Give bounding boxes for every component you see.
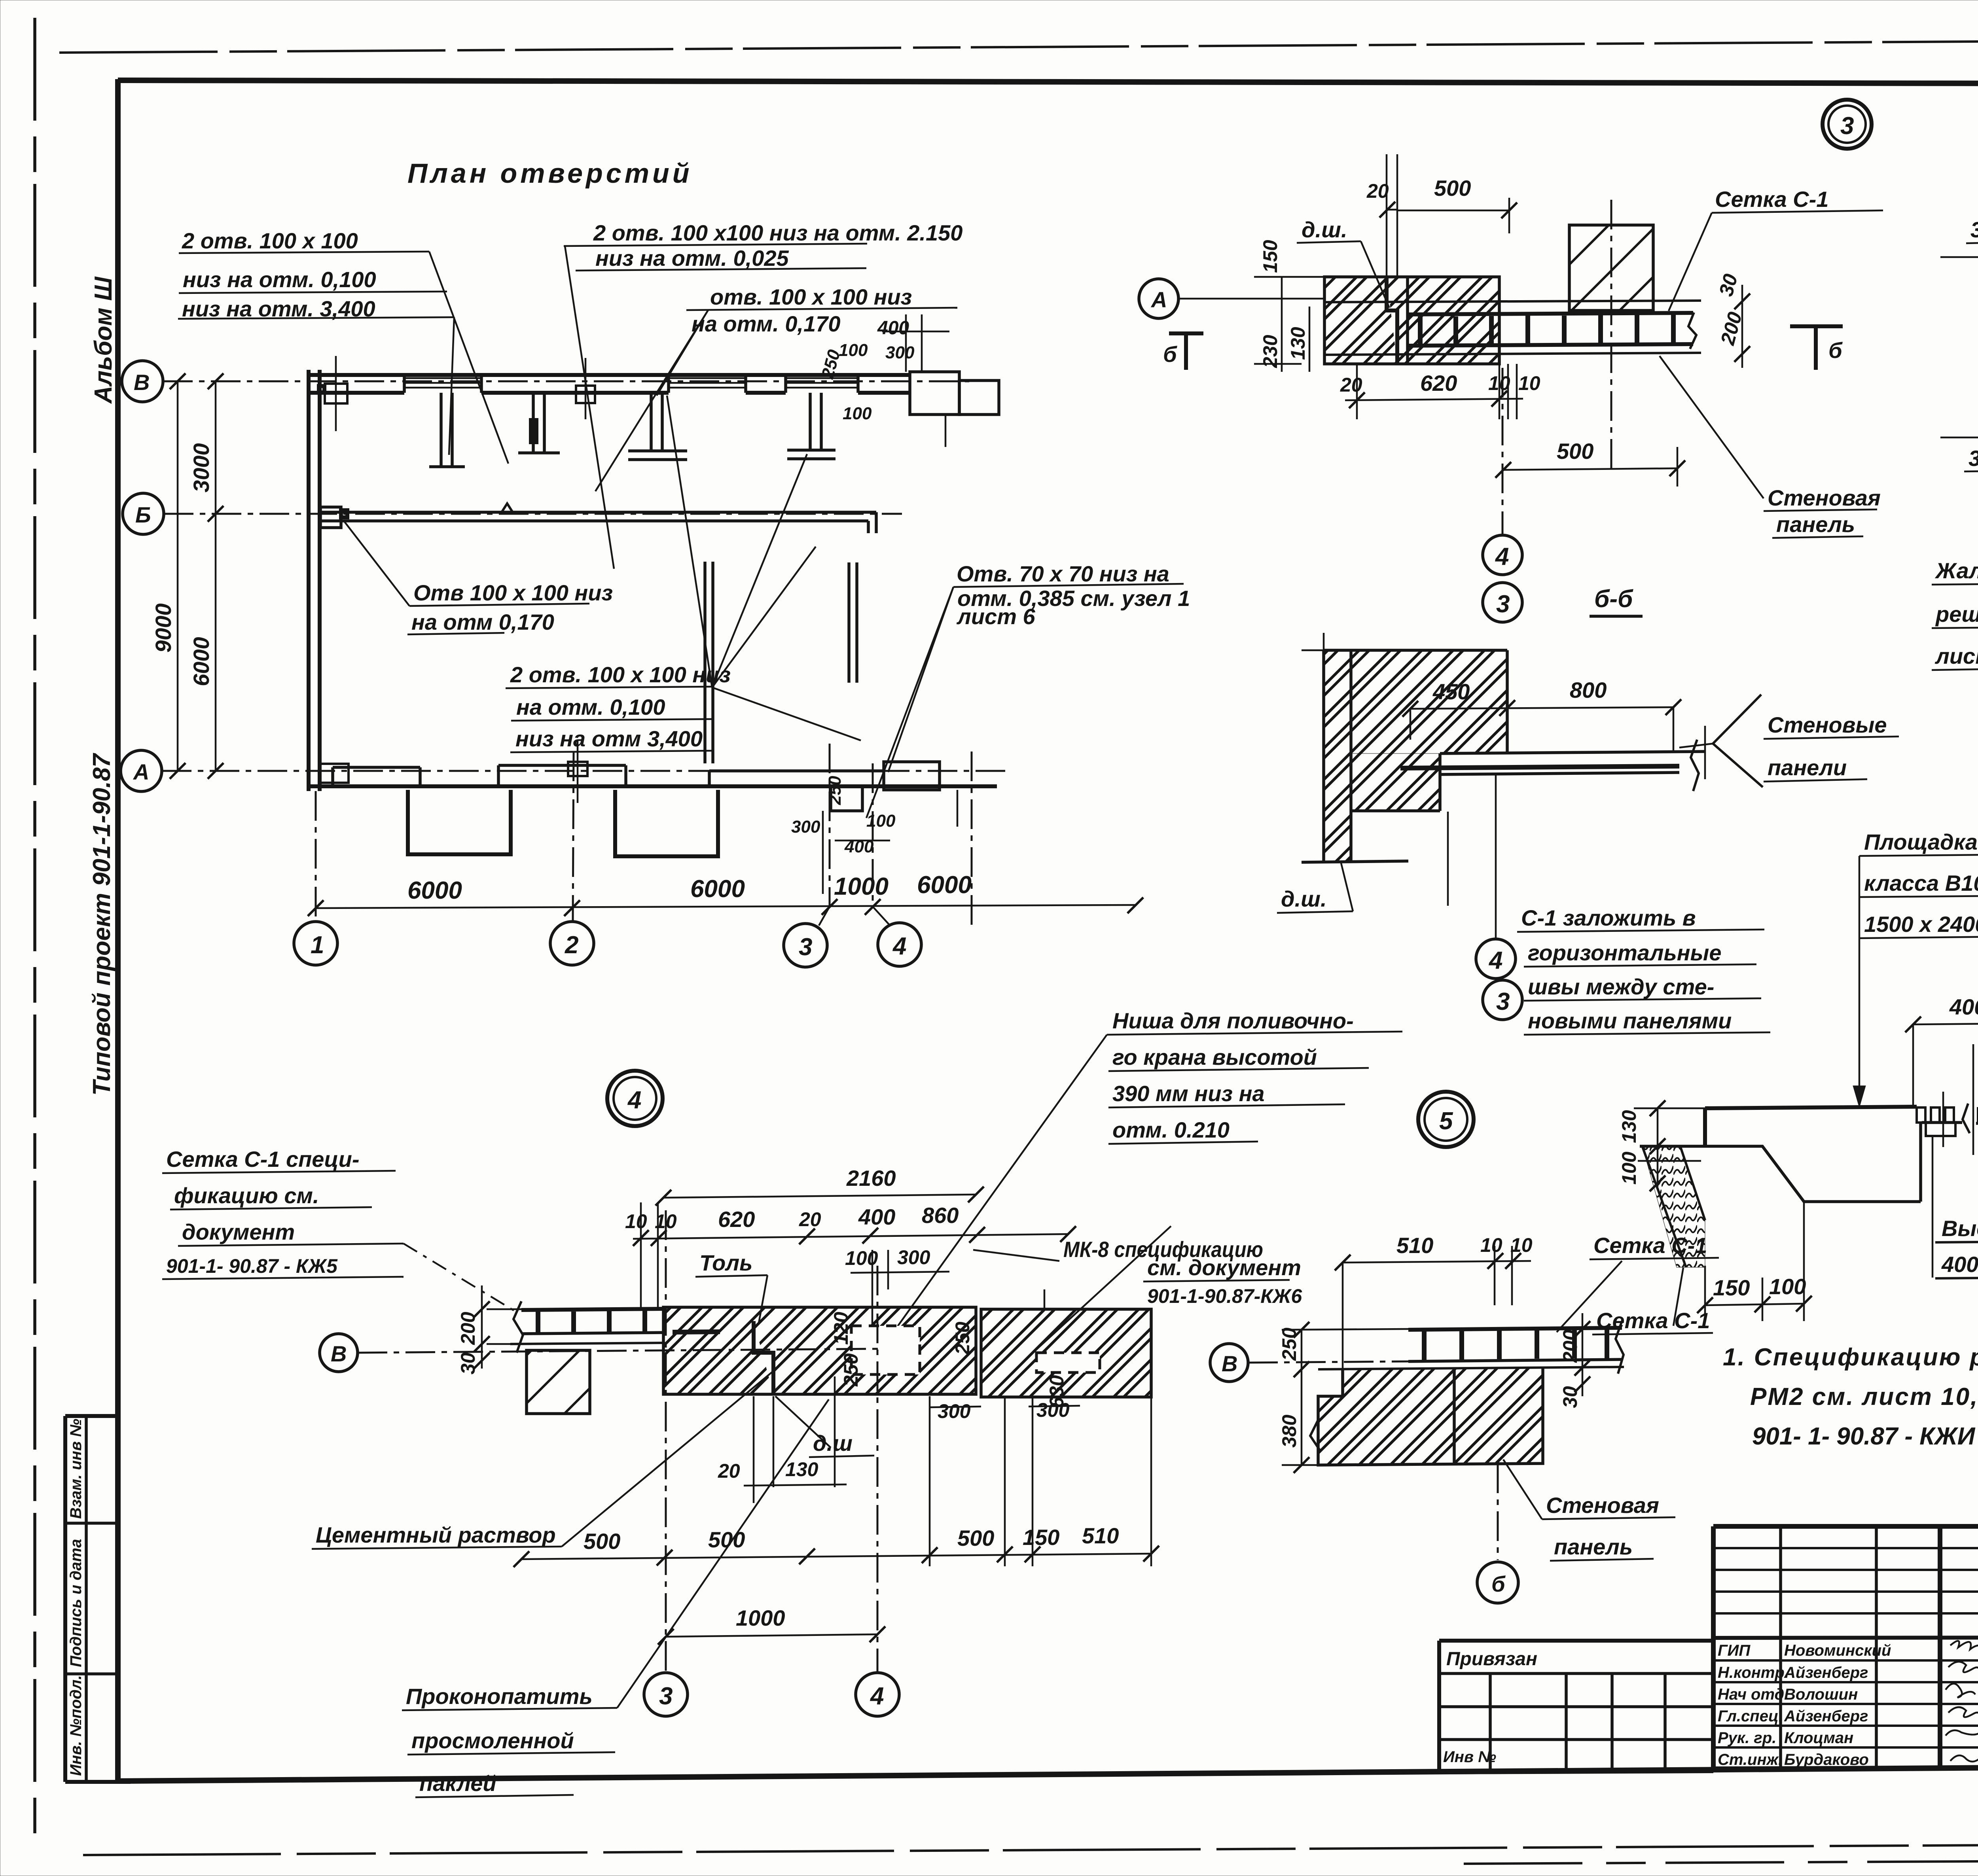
leader text отв 100x100 низ на отм 0,170 (upper) xyxy=(595,284,957,491)
dim 1000 xyxy=(658,1605,885,1645)
dims below б-б: 20 620 10 10 xyxy=(1340,364,1540,419)
wall fixture at В-2 xyxy=(576,358,595,419)
svg-text:низ на отм. 0,100: низ на отм. 0,100 xyxy=(183,267,376,292)
svg-text:100: 100 xyxy=(866,811,896,831)
svg-text:Айзенберг: Айзенберг xyxy=(1784,1708,1868,1725)
svg-text:документ: документ xyxy=(182,1219,295,1244)
plan top wall row В xyxy=(308,375,910,393)
svg-text:130: 130 xyxy=(1618,1110,1640,1143)
node5 mesh band xyxy=(1318,1321,1624,1374)
detail circle 5 xyxy=(1418,1092,1474,1147)
detail circle 3 xyxy=(1823,100,1872,149)
paper edge left xyxy=(33,18,36,1843)
svg-text:901- 1- 90.87 - КЖИ РМ2.: 901- 1- 90.87 - КЖИ РМ2. xyxy=(1752,1423,1978,1450)
svg-text:10: 10 xyxy=(625,1210,647,1232)
svg-text:400: 400 xyxy=(877,318,909,339)
svg-text:Айзенберг: Айзенберг xyxy=(1784,1664,1868,1681)
louver opening 3 xyxy=(786,375,858,393)
svg-text:А: А xyxy=(1150,287,1167,312)
dims 200 30 node4 xyxy=(457,1285,521,1374)
svg-text:500: 500 xyxy=(584,1529,620,1554)
svg-text:620: 620 xyxy=(1420,371,1457,396)
svg-text:1000: 1000 xyxy=(834,873,889,900)
дш label xyxy=(1297,217,1389,308)
svg-text:класса В10 размерами: класса В10 размерами xyxy=(1864,871,1978,895)
axis line В xyxy=(163,381,969,382)
svg-text:отв. 100 х 100 низ: отв. 100 х 100 низ xyxy=(710,284,912,309)
svg-text:3: 3 xyxy=(1840,112,1854,140)
partition stub 2 below top wall xyxy=(518,393,560,453)
svg-text:В: В xyxy=(134,370,150,395)
svg-text:20: 20 xyxy=(1340,374,1362,396)
svg-text:9000: 9000 xyxy=(151,603,176,653)
vertical dim line 9000 xyxy=(151,373,186,779)
paper edge bottom xyxy=(83,1842,1978,1864)
svg-text:Типовой проект 901-1-90.87: Типовой проект 901-1-90.87 xyxy=(88,753,116,1096)
wall fixture at В-1 xyxy=(319,356,347,431)
svg-text:РМ2 см. лист 10, конструкц: РМ2 см. лист 10, конструкцию см. докумен… xyxy=(1750,1383,1978,1410)
label МК-8 спецификацию xyxy=(973,1226,1302,1357)
svg-text:380: 380 xyxy=(1278,1414,1300,1448)
axis circle А xyxy=(121,750,162,791)
svg-text:д.ш: д.ш xyxy=(813,1431,853,1456)
svg-text:С-1 заложить в: С-1 заложить в xyxy=(1521,905,1696,930)
svg-text:2 отв. 100 х 100 низ: 2 отв. 100 х 100 низ xyxy=(510,662,731,687)
elevation 3,630 xyxy=(1940,437,1978,471)
svg-text:250: 250 xyxy=(1278,1327,1300,1361)
svg-text:панель: панель xyxy=(1554,1534,1633,1559)
svg-text:В: В xyxy=(331,1341,347,1366)
label Стеновая панель node5 xyxy=(1503,1460,1675,1561)
svg-text:130: 130 xyxy=(1287,327,1309,360)
svg-text:200: 200 xyxy=(457,1312,479,1345)
svg-text:30: 30 xyxy=(457,1352,479,1374)
label Сетка С-1 node5 xyxy=(1557,1233,1719,1332)
svg-text:3: 3 xyxy=(1496,988,1510,1015)
dim 500 below xyxy=(1495,439,1685,487)
elevation 3,900 xyxy=(1940,217,1978,257)
svg-text:3,630: 3,630 xyxy=(1969,446,1978,471)
svg-text:швы между сте-: швы между сте- xyxy=(1528,974,1714,999)
svg-text:Инв №: Инв № xyxy=(1443,1748,1496,1766)
svg-text:см. документ: см. документ xyxy=(1147,1255,1301,1280)
svg-text:130: 130 xyxy=(785,1458,818,1480)
partition stub 4 below top wall xyxy=(787,393,836,459)
dims 200 30 node5 xyxy=(1559,1313,1590,1408)
svg-text:д.ш.: д.ш. xyxy=(1281,886,1327,911)
svg-text:6000: 6000 xyxy=(407,877,462,904)
column axis circle 2 xyxy=(550,752,594,965)
svg-text:низ на отм. 0,025: низ на отм. 0,025 xyxy=(595,246,789,271)
svg-text:20: 20 xyxy=(799,1208,821,1230)
svg-text:на отм. 0,170: на отм. 0,170 xyxy=(692,311,840,336)
svg-text:Инв. №подл.: Инв. №подл. xyxy=(67,1675,85,1776)
svg-text:300: 300 xyxy=(1036,1399,1070,1421)
dim 400 400 xyxy=(1905,992,1978,1107)
svg-text:510: 510 xyxy=(1396,1233,1433,1258)
dims 250 380 node5 xyxy=(1278,1322,1408,1473)
svg-text:250: 250 xyxy=(951,1321,974,1355)
leader text 2 отв 100x100 (left) xyxy=(178,228,508,464)
Сетка С-1 label xyxy=(1669,187,1883,311)
label С-1 заложить xyxy=(1517,905,1770,1035)
label Сетка С-1 спецификацию xyxy=(162,1147,518,1313)
svg-text:860: 860 xyxy=(922,1203,959,1228)
svg-text:4: 4 xyxy=(892,933,906,960)
louver opening 2 xyxy=(669,375,746,393)
svg-text:400 х 590 х 70(h): 400 х 590 х 70(h) xyxy=(1941,1252,1978,1277)
plan bottom right corner detail xyxy=(791,762,957,894)
svg-text:5: 5 xyxy=(1439,1107,1453,1135)
svg-text:б: б xyxy=(1828,338,1843,363)
б-б caption xyxy=(1590,585,1643,616)
dim 20 130 node4 xyxy=(718,1376,847,1503)
svg-text:Стеновые: Стеновые xyxy=(1768,712,1887,737)
svg-text:2: 2 xyxy=(565,931,578,959)
svg-text:А: А xyxy=(133,759,149,784)
svg-text:низ на отм 3,400: низ на отм 3,400 xyxy=(515,726,703,751)
svg-text:3: 3 xyxy=(799,933,812,961)
svg-text:ГИП: ГИП xyxy=(1718,1642,1751,1659)
leader text 2 отв 100x100 низ (center) xyxy=(506,396,861,752)
svg-text:6000: 6000 xyxy=(690,875,745,903)
svg-text:100: 100 xyxy=(843,404,872,423)
detail circle 4 header xyxy=(607,1071,663,1126)
svg-text:4: 4 xyxy=(870,1683,884,1710)
paper edge top xyxy=(59,38,1978,53)
axis В circle node5 xyxy=(1210,1344,1408,1382)
hatched pier above xyxy=(1569,200,1653,471)
Стеновая панель label xyxy=(1660,356,1881,538)
svg-text:230: 230 xyxy=(1259,335,1281,368)
svg-text:Жалюзийная: Жалюзийная xyxy=(1934,558,1978,583)
label Сетка С-1 left xyxy=(1592,1268,1713,1335)
label Площадка из бетона xyxy=(1853,829,1978,1107)
plan top wall right corner detail xyxy=(818,314,999,447)
partition mid right 1 xyxy=(705,562,713,763)
axis circles 3 and 4 node4 xyxy=(644,1210,688,1716)
svg-text:1000: 1000 xyxy=(736,1605,785,1630)
svg-text:2 отв. 100 х100 низ на отм.: 2 отв. 100 х100 низ на отм. 2.150 xyxy=(593,220,962,245)
column axis circle 1 xyxy=(294,791,337,965)
svg-text:250: 250 xyxy=(825,776,845,805)
axis В circle node4 xyxy=(320,1334,882,1372)
svg-text:150: 150 xyxy=(1713,1275,1750,1300)
svg-text:Сетка С-1 специ-: Сетка С-1 специ- xyxy=(166,1147,359,1172)
dim 100 300 xyxy=(845,1246,949,1361)
svg-text:901-1-90.87-КЖ6: 901-1-90.87-КЖ6 xyxy=(1147,1285,1302,1307)
svg-text:10: 10 xyxy=(1480,1234,1502,1256)
svg-text:30: 30 xyxy=(1559,1386,1581,1408)
svg-text:Сетка С-1: Сетка С-1 xyxy=(1593,1233,1707,1258)
grate teeth xyxy=(1917,1044,1978,1155)
svg-text:300: 300 xyxy=(885,343,915,362)
dim 2160 xyxy=(656,1166,984,1206)
svg-text:Площадка из Бетона: Площадка из Бетона xyxy=(1864,829,1978,854)
svg-text:Толь: Толь xyxy=(699,1250,752,1275)
plan wall row Б xyxy=(320,504,876,533)
б-б hatched wall block xyxy=(1324,277,1499,364)
plan title План отверстий xyxy=(407,158,692,189)
dim 20 500 above xyxy=(1366,154,1517,277)
label дш node4 xyxy=(775,1396,874,1457)
svg-text:200: 200 xyxy=(1559,1329,1581,1363)
dim 200 30 right of band xyxy=(1715,271,1750,368)
svg-text:6000: 6000 xyxy=(917,871,972,899)
svg-text:4: 4 xyxy=(627,1087,641,1114)
svg-text:100: 100 xyxy=(839,341,868,360)
svg-text:панель: панель xyxy=(1776,512,1855,537)
column axis circle 3 xyxy=(784,744,830,967)
svg-text:Ниша для поливочно-: Ниша для поливочно- xyxy=(1112,1008,1354,1033)
circle 4 above 3 xyxy=(1483,368,1522,575)
svg-text:Гл.спец.: Гл.спец. xyxy=(1718,1708,1783,1725)
svg-text:Новоминский: Новоминский xyxy=(1784,1642,1891,1659)
node4 pier xyxy=(527,1350,590,1414)
dims left of б-б: 150 230 130 xyxy=(1254,240,1324,372)
svg-text:д.ш.: д.ш. xyxy=(1302,217,1347,242)
svg-text:10: 10 xyxy=(1510,1234,1533,1256)
svg-text:4: 4 xyxy=(1495,543,1509,570)
column axis circle 4 xyxy=(873,763,921,966)
svg-text:1. Спецификацию решетки для: 1. Спецификацию решетки для вытирания но… xyxy=(1723,1344,1978,1371)
rotated dims right side node4 xyxy=(830,1289,1151,1422)
svg-text:Стеновая: Стеновая xyxy=(1768,485,1881,510)
svg-text:Ст.инж.: Ст.инж. xyxy=(1718,1751,1783,1768)
axis circle А section xyxy=(1139,279,1324,318)
label Выемка в площадке xyxy=(1933,1137,1978,1278)
svg-text:Н.контр.: Н.контр. xyxy=(1718,1664,1789,1681)
dim row 10 10 620 20 400 860 xyxy=(625,1202,1076,1309)
svg-text:10: 10 xyxy=(1518,372,1540,394)
svg-text:отм. 0.210: отм. 0.210 xyxy=(1112,1117,1230,1142)
wall panel strip right xyxy=(1400,726,1705,791)
svg-text:Цементный раствор: Цементный раствор xyxy=(316,1522,556,1547)
svg-text:на отм. 0,100: на отм. 0,100 xyxy=(516,695,665,719)
svg-text:новыми панелями: новыми панелями xyxy=(1528,1008,1732,1033)
svg-text:10: 10 xyxy=(1488,372,1510,394)
louver opening 1 xyxy=(404,375,481,393)
platform section drawing xyxy=(1638,1107,1978,1267)
margin rotated label Типовой проект 901-1-90.87 xyxy=(88,753,116,1096)
partition stub 1 below top wall xyxy=(429,393,465,467)
svg-text:3,900: 3,900 xyxy=(1970,217,1978,242)
svg-text:Сетка С-1: Сетка С-1 xyxy=(1715,187,1828,212)
axis line А xyxy=(162,770,1009,772)
axis circle Б xyxy=(123,493,164,534)
margin rotated label Альбом III xyxy=(90,276,117,404)
svg-text:150: 150 xyxy=(1023,1525,1059,1550)
svg-text:Клоцман: Клоцман xyxy=(1784,1729,1853,1747)
node5 hatched slab xyxy=(1310,1368,1543,1465)
svg-text:б-б: б-б xyxy=(1594,585,1633,613)
svg-text:Нач отд.: Нач отд. xyxy=(1718,1686,1789,1703)
svg-text:450: 450 xyxy=(1432,679,1470,704)
svg-text:510: 510 xyxy=(1082,1523,1119,1548)
leader text Отв 100x100 низ на отм 0.170 (mid-left) xyxy=(344,521,613,634)
svg-text:Рук. гр.: Рук. гр. xyxy=(1718,1729,1776,1747)
plan wall row А xyxy=(308,740,997,803)
svg-text:лист 6: лист 6 xyxy=(956,604,1036,629)
svg-text:на отм 0,170: на отм 0,170 xyxy=(411,610,554,634)
svg-text:901-1- 90.87 - КЖ5: 901-1- 90.87 - КЖ5 xyxy=(166,1255,338,1277)
svg-text:20: 20 xyxy=(718,1460,740,1482)
leader text 2 отв 100x100 низ на отм 2.150 (top middle) xyxy=(564,220,962,569)
svg-text:500: 500 xyxy=(957,1526,994,1550)
plan left wall xyxy=(309,370,320,791)
node4 hatched mass xyxy=(663,1307,1151,1397)
svg-text:300: 300 xyxy=(791,817,820,837)
node4 mesh band xyxy=(510,1301,665,1353)
title block signature rows xyxy=(1718,1641,1978,1768)
svg-text:1: 1 xyxy=(311,931,324,959)
svg-text:Взам. инв №: Взам. инв № xyxy=(67,1419,85,1519)
svg-text:100: 100 xyxy=(845,1247,878,1269)
label Стеновые панели with arrow xyxy=(1679,695,1899,787)
dim 450 800 xyxy=(1402,678,1681,752)
svg-text:150: 150 xyxy=(1259,240,1281,273)
vertical dim line 3000/6000 xyxy=(189,373,224,779)
svg-text:300: 300 xyxy=(938,1400,971,1422)
svg-text:400: 400 xyxy=(858,1204,895,1229)
circles 4 and 3 node6 xyxy=(1448,775,1516,979)
svg-text:б: б xyxy=(1163,342,1177,367)
dims 130 100 left xyxy=(1618,1100,1705,1191)
svg-text:500: 500 xyxy=(1434,176,1471,201)
svg-text:паклей: паклей xyxy=(419,1771,496,1796)
svg-text:решетка ВЖ2: решетка ВЖ2 xyxy=(1935,602,1978,627)
svg-text:Отв 100 х 100 низ: Отв 100 х 100 низ xyxy=(413,580,613,605)
partition stub 3 below top wall xyxy=(628,393,687,460)
svg-text:100: 100 xyxy=(1769,1274,1806,1299)
axis circle В xyxy=(122,361,163,402)
svg-text:300: 300 xyxy=(897,1246,930,1268)
dims 150 100 xyxy=(1697,1202,1812,1321)
svg-text:Проконопатить: Проконопатить xyxy=(406,1684,593,1709)
section mark б left xyxy=(1163,333,1203,370)
label Ниша для поливочного крана xyxy=(896,1008,1402,1329)
mesh joint band xyxy=(1324,301,1701,355)
node5 dims 510 10 10 xyxy=(1335,1233,1533,1369)
svg-text:2160: 2160 xyxy=(846,1166,896,1191)
far right axis dash xyxy=(971,752,973,926)
axis б circle node5 xyxy=(1477,1463,1518,1603)
svg-text:Подпись и дата: Подпись и дата xyxy=(67,1539,85,1667)
bottom dimension line 6000 6000 1000 6000 xyxy=(308,871,1143,916)
foundation pit 1 xyxy=(408,790,511,854)
дш label node6 xyxy=(1277,863,1353,913)
svg-text:горизонтальные: горизонтальные xyxy=(1528,940,1721,965)
axis line Б xyxy=(164,513,902,515)
svg-text:120: 120 xyxy=(830,1312,852,1345)
svg-text:Альбом Ш: Альбом Ш xyxy=(90,276,117,404)
svg-text:б: б xyxy=(1491,1571,1506,1596)
svg-text:Отв. 70 х 70 низ на: Отв. 70 х 70 низ на xyxy=(957,561,1169,586)
svg-text:Б: Б xyxy=(135,502,151,527)
svg-text:400: 400 xyxy=(1949,994,1978,1019)
svg-text:1500 х 2400: 1500 х 2400 xyxy=(1864,912,1978,937)
svg-text:В: В xyxy=(1222,1351,1237,1376)
svg-text:100: 100 xyxy=(1618,1151,1640,1185)
bottom dims 500 500 500 150 510 xyxy=(513,1396,1159,1567)
partition mid right 2 xyxy=(849,562,857,683)
svg-text:2 отв. 100 х 100: 2 отв. 100 х 100 xyxy=(182,228,358,253)
margin stamp table xyxy=(65,1416,131,1782)
foundation pit 2 xyxy=(615,790,718,856)
Привязан table xyxy=(1439,1641,1713,1772)
svg-text:3: 3 xyxy=(1496,591,1510,618)
section mark б right xyxy=(1790,326,1843,370)
svg-text:Выемка в площадке: Выемка в площадке xyxy=(1942,1216,1978,1241)
svg-text:просмоленной: просмоленной xyxy=(411,1728,574,1753)
svg-text:панели: панели xyxy=(1768,755,1847,780)
svg-text:620: 620 xyxy=(718,1207,755,1232)
label Цементный раствор xyxy=(312,1369,775,1549)
svg-text:Волошин: Волошин xyxy=(1784,1686,1858,1703)
label Жалюзийная решетка ВЖ2 лист 16 xyxy=(1932,498,1978,670)
svg-text:3: 3 xyxy=(659,1683,673,1710)
svg-text:Бурдаково: Бурдаково xyxy=(1784,1751,1869,1768)
svg-text:4: 4 xyxy=(1488,947,1502,974)
svg-text:20: 20 xyxy=(1366,180,1389,202)
svg-text:500: 500 xyxy=(1557,439,1593,464)
svg-text:390 мм низ на: 390 мм низ на xyxy=(1112,1081,1265,1106)
hatched corner block xyxy=(1302,633,1507,862)
svg-text:фикацию см.: фикацию см. xyxy=(174,1183,319,1208)
svg-text:6000: 6000 xyxy=(189,637,214,686)
svg-text:800: 800 xyxy=(1570,678,1607,702)
svg-text:го крана высотой: го крана высотой xyxy=(1112,1045,1317,1070)
svg-text:лист 16: лист 16 xyxy=(1934,644,1978,668)
label Толь xyxy=(695,1250,767,1323)
svg-text:3000: 3000 xyxy=(189,443,214,492)
svg-text:Стеновая: Стеновая xyxy=(1546,1493,1659,1518)
label Проконопатить просмоленной паклей xyxy=(402,1399,829,1797)
svg-text:План отверстий: План отверстий xyxy=(407,158,692,189)
leader text Отв 70x70 низ на отм 0,385 xyxy=(866,561,1190,818)
svg-text:Привязан: Привязан xyxy=(1446,1649,1537,1670)
svg-text:250: 250 xyxy=(840,1353,862,1387)
